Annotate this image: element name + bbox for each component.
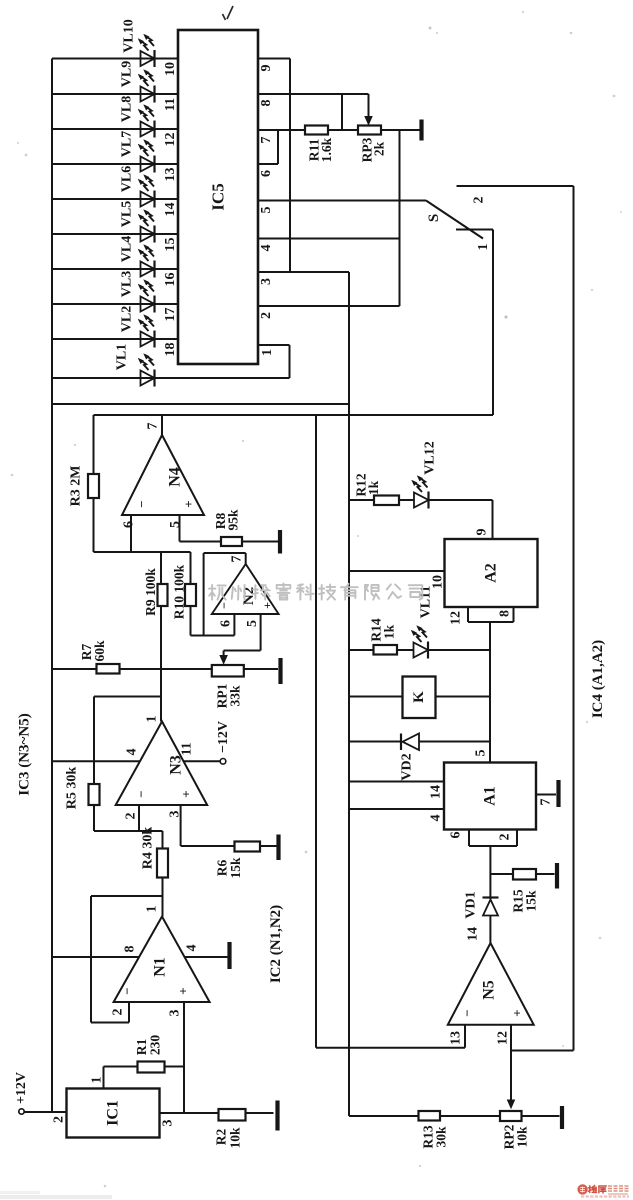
svg-text:10k: 10k xyxy=(515,1126,530,1148)
wire contact 1 down xyxy=(492,230,494,416)
svg-text:IC2 (N1,N2): IC2 (N1,N2) xyxy=(268,905,284,983)
resistor R1 xyxy=(138,1062,165,1073)
svg-text:IC1: IC1 xyxy=(105,1100,122,1126)
svg-text:IC3 (N3~N5): IC3 (N3~N5) xyxy=(17,713,33,795)
label R2 value xyxy=(214,1127,243,1149)
wire IC5 pin 17 row xyxy=(52,303,178,305)
ground R15 ref xyxy=(555,863,559,889)
wire N1 pin 4 ground xyxy=(185,956,228,958)
wire N3 pin 3 xyxy=(181,805,235,846)
watermark company name xyxy=(209,584,422,601)
svg-text:1: 1 xyxy=(145,716,160,723)
svg-text:14: 14 xyxy=(466,927,481,941)
svg-text:17: 17 xyxy=(163,308,178,322)
svg-text:1k: 1k xyxy=(382,624,397,639)
resistor R4 xyxy=(157,849,168,878)
svg-text:7: 7 xyxy=(539,799,554,806)
wire R13 row xyxy=(349,1115,560,1117)
svg-text:2: 2 xyxy=(259,312,274,319)
svg-text:1: 1 xyxy=(260,349,275,356)
svg-text:4: 4 xyxy=(429,815,444,822)
ground IC1 ref xyxy=(275,1101,279,1131)
ground N1 ref xyxy=(227,942,231,969)
svg-text:11: 11 xyxy=(163,98,178,111)
label R15 value xyxy=(511,889,539,912)
wire node R3-R9-R10 xyxy=(94,551,191,553)
wire R8 to ground xyxy=(242,541,278,543)
wire IC5 pin 9 xyxy=(258,58,290,60)
svg-text:VL10: VL10 xyxy=(122,19,137,52)
wire A1 pin 14 row xyxy=(349,781,444,783)
wire A2 out to A1 pin 5 xyxy=(489,622,491,763)
svg-text:12: 12 xyxy=(163,133,178,147)
svg-text:1: 1 xyxy=(145,906,160,913)
svg-text:9: 9 xyxy=(475,529,490,536)
wire N4 output line xyxy=(94,414,494,416)
svg-text:5: 5 xyxy=(259,207,274,214)
svg-text:5: 5 xyxy=(245,620,260,627)
svg-text:+12V: +12V xyxy=(14,1072,29,1104)
svg-text:13: 13 xyxy=(163,168,178,182)
op-amp N1 xyxy=(114,917,210,1003)
wire pins 2-4 to RP3 ground node xyxy=(399,130,401,306)
wire IC5 pin 10 row xyxy=(52,58,178,60)
LED VL11 xyxy=(411,626,428,659)
svg-text:A2: A2 xyxy=(483,563,500,583)
svg-text:12: 12 xyxy=(449,611,464,625)
wire N5 pin 12 xyxy=(511,1025,574,1051)
resistor R2 xyxy=(219,1109,246,1121)
wire R9 chain N4pin6 to N3 out xyxy=(160,552,162,722)
LED VL4 xyxy=(138,245,154,278)
wire A1 pin 4 row xyxy=(349,808,444,810)
wire R4 chain xyxy=(162,831,164,917)
svg-text:VL12: VL12 xyxy=(423,441,438,474)
svg-text:−: − xyxy=(120,987,135,994)
wire IC1 pin 1 to R1 xyxy=(104,1067,138,1089)
wire N3 pin 4 supply xyxy=(52,760,140,762)
svg-text:3: 3 xyxy=(161,1120,176,1127)
svg-text:95k: 95k xyxy=(226,509,241,531)
potentiometer RP1 xyxy=(212,665,244,677)
wire bus pins 9-3 xyxy=(289,59,291,273)
ground N3 ref xyxy=(276,835,280,861)
label RP1 value xyxy=(215,683,243,708)
LED VL1 xyxy=(138,354,154,387)
LED VL6 xyxy=(138,175,154,208)
svg-text:2: 2 xyxy=(472,197,487,204)
svg-text:N3: N3 xyxy=(168,755,185,775)
IC chip IC5 xyxy=(178,30,258,364)
svg-text:230: 230 xyxy=(148,1035,163,1056)
op-amp N4 xyxy=(122,435,204,515)
svg-text:R3 2M: R3 2M xyxy=(69,466,84,507)
LED VL12 xyxy=(412,476,429,509)
wire N4 pin 5 xyxy=(180,515,222,542)
svg-text:12: 12 xyxy=(496,1031,511,1045)
wire R2 to ground xyxy=(246,1112,274,1114)
svg-text:1: 1 xyxy=(476,244,491,251)
wire R11 to RP3 xyxy=(328,129,358,131)
label R7 value xyxy=(79,640,107,662)
wire IC5 pin 12 row xyxy=(52,128,178,130)
LED VL3 xyxy=(138,280,154,313)
svg-text:30k: 30k xyxy=(434,1126,449,1148)
resistor R8 xyxy=(221,537,242,546)
LED VL5 xyxy=(138,210,154,243)
wire IC5 pin 13 row xyxy=(52,163,178,165)
wire IC5 pin 1 stub xyxy=(258,345,290,378)
svg-text:VL2: VL2 xyxy=(120,306,135,332)
svg-text:K: K xyxy=(411,691,427,703)
svg-text:8: 8 xyxy=(259,100,274,107)
label R12 value xyxy=(354,473,382,496)
svg-text:R2: R2 xyxy=(214,1129,229,1146)
svg-text:A1: A1 xyxy=(482,786,499,806)
wire R1 to N1 pin3 node xyxy=(165,1066,185,1068)
wire R3 feedback xyxy=(93,415,95,552)
svg-text:4: 4 xyxy=(259,245,274,252)
wire IC5 pin 16 row xyxy=(52,268,178,270)
ground RP1 ref xyxy=(278,658,282,684)
ground N4 ref xyxy=(278,530,282,554)
wire contact 2 right rail xyxy=(573,186,575,1051)
label RP3 value xyxy=(360,137,387,162)
terminal +12V xyxy=(19,1109,24,1114)
svg-text:2: 2 xyxy=(111,1009,126,1016)
op-amp N2 xyxy=(212,564,279,614)
wire IC5 pin 8 xyxy=(258,93,369,95)
svg-text:S: S xyxy=(426,214,442,222)
potentiometer RP2 xyxy=(500,1111,522,1121)
svg-text:18: 18 xyxy=(163,343,178,357)
LED VL10 xyxy=(138,34,154,67)
svg-text:16: 16 xyxy=(163,273,178,287)
diode VD1 xyxy=(483,898,499,916)
svg-text:VL6: VL6 xyxy=(120,166,135,192)
resistor R3 xyxy=(88,474,99,498)
wire IC5 pin 2 xyxy=(258,305,400,307)
IC chip A2 xyxy=(445,539,538,607)
wire IC5 pin 18 row xyxy=(52,338,178,340)
wire pin8 to R11-RP3 node xyxy=(341,94,343,130)
svg-text:VL8: VL8 xyxy=(120,96,135,122)
svg-text:VL5: VL5 xyxy=(120,201,135,227)
svg-text:−: − xyxy=(217,602,231,609)
svg-text:+: + xyxy=(179,790,194,797)
LED VL7 xyxy=(138,140,154,173)
wire IC5 pin 15 row xyxy=(52,233,178,235)
wire N3 pin 2 xyxy=(138,805,140,831)
resistor R7 xyxy=(97,664,120,674)
switch contact 1 xyxy=(456,229,493,231)
resistor R10 xyxy=(185,584,196,606)
svg-text:3: 3 xyxy=(168,811,183,818)
wire N1 pin 2 xyxy=(128,1002,130,1023)
svg-text:+: + xyxy=(181,500,196,507)
svg-text:3: 3 xyxy=(259,278,274,285)
svg-text:−12V: −12V xyxy=(216,721,231,753)
resistor R13 xyxy=(419,1111,441,1121)
label R11 value xyxy=(307,137,335,162)
svg-text:IC5: IC5 xyxy=(209,183,228,210)
svg-text:14: 14 xyxy=(429,785,444,799)
wire N2 pin 6 xyxy=(233,614,235,636)
wire N2 output loop xyxy=(191,553,246,636)
svg-text:4: 4 xyxy=(125,749,140,756)
svg-text:6: 6 xyxy=(259,170,274,177)
svg-text:−: − xyxy=(460,1009,475,1016)
resistor R9 xyxy=(158,584,168,606)
svg-text:1.6k: 1.6k xyxy=(319,137,334,162)
A2 pins 12-8 stub xyxy=(468,607,514,622)
svg-text:15k: 15k xyxy=(228,857,243,879)
svg-text:11: 11 xyxy=(180,742,195,755)
wire A2 pin 10 row xyxy=(349,570,445,572)
label R13 value xyxy=(421,1125,449,1148)
wire IC1 pin 3 row xyxy=(160,1112,219,1114)
resistor R15 xyxy=(513,869,536,880)
wire +12V feed A-section xyxy=(348,404,350,1116)
svg-text:VD1: VD1 xyxy=(464,891,479,918)
svg-text:VL1: VL1 xyxy=(115,344,130,370)
label R1 value xyxy=(134,1035,163,1056)
switch contact 2 wire xyxy=(457,185,574,187)
wire N2 pin 5 xyxy=(220,614,261,664)
LED VL9 xyxy=(138,70,154,103)
svg-text:−: − xyxy=(134,790,149,797)
svg-text:10k: 10k xyxy=(228,1127,243,1149)
svg-text:7: 7 xyxy=(146,423,161,430)
svg-text:VL9: VL9 xyxy=(120,61,135,87)
svg-text:+: + xyxy=(510,1009,525,1016)
LED VL2 xyxy=(138,315,154,348)
svg-text:VL11: VL11 xyxy=(419,586,434,619)
wire A1 pin 7 to ground xyxy=(536,794,556,796)
svg-text:5: 5 xyxy=(168,521,183,528)
resistor R12 xyxy=(374,496,399,506)
resistor R6 xyxy=(235,842,261,852)
svg-text:VL4: VL4 xyxy=(120,236,135,262)
svg-text:IC4 (A1,A2): IC4 (A1,A2) xyxy=(590,640,606,718)
op-amp N3 xyxy=(116,722,208,806)
svg-text:15: 15 xyxy=(163,238,178,252)
svg-text:2: 2 xyxy=(498,834,513,841)
wire +12V left rail xyxy=(51,59,53,1113)
wire N4 pin 6 xyxy=(130,515,132,552)
wire R6 to ground xyxy=(260,845,277,847)
svg-text:10: 10 xyxy=(163,62,178,76)
wire IC5 pin 3 to +12V bus xyxy=(258,272,349,404)
label R8 value xyxy=(213,509,241,531)
svg-text:R4 30k: R4 30k xyxy=(141,827,156,870)
svg-text:33k: 33k xyxy=(228,685,243,707)
wire VD1 to N5 output xyxy=(489,916,491,944)
ground A1 ref xyxy=(556,780,560,807)
svg-text:7: 7 xyxy=(259,137,274,144)
wire IC5 pin 14 row xyxy=(52,198,178,200)
svg-text:8: 8 xyxy=(123,946,138,953)
svg-text:9: 9 xyxy=(259,65,274,72)
wire A1 out to VD1 xyxy=(489,846,491,899)
wire IC5 pin 6 xyxy=(258,130,278,164)
svg-text:2k: 2k xyxy=(372,141,387,156)
svg-text:6: 6 xyxy=(449,832,464,839)
switch S blade xyxy=(426,201,483,239)
diode VD2 xyxy=(401,734,419,751)
svg-text:6: 6 xyxy=(122,521,137,528)
wire IC5 pin 4 xyxy=(258,238,400,240)
wire IC5 pin 7 xyxy=(258,129,306,131)
handwritten mark xyxy=(223,6,234,20)
wire N3 pin 11 xyxy=(184,760,221,762)
wire R14 row xyxy=(349,649,490,651)
wire N4 output to N5 input xyxy=(315,415,317,1048)
terminal -12V xyxy=(220,759,226,765)
svg-text:13: 13 xyxy=(449,1031,464,1045)
wire RP3 wiper arrow xyxy=(365,94,372,125)
wire N4 output pin 7 xyxy=(161,415,163,435)
svg-text:VL7: VL7 xyxy=(120,131,135,157)
LED VL8 xyxy=(138,105,154,138)
svg-text:R9 100k: R9 100k xyxy=(143,568,158,616)
A1 pins 6-2 stub xyxy=(469,830,517,847)
IC chip A1 xyxy=(444,763,536,830)
svg-text:15k: 15k xyxy=(524,890,539,912)
wire IC5 pin 11 row xyxy=(52,93,178,95)
resistor R14 xyxy=(374,645,398,655)
label R6 value xyxy=(215,857,244,879)
wire K row xyxy=(349,696,490,698)
svg-text:8: 8 xyxy=(498,610,513,617)
svg-text:−: − xyxy=(134,500,149,507)
wire N1 pin 8 supply xyxy=(52,956,139,958)
svg-text:N1: N1 xyxy=(152,957,169,977)
svg-text:VD2: VD2 xyxy=(400,753,415,780)
svg-text:6: 6 xyxy=(219,620,234,627)
ground RP2 ref xyxy=(560,1106,564,1129)
ground IC5 ref xyxy=(419,120,423,141)
svg-text:1: 1 xyxy=(90,1077,105,1084)
watermark logo xyxy=(577,1184,629,1196)
svg-text:2: 2 xyxy=(52,1116,67,1123)
svg-text:1k: 1k xyxy=(366,480,381,495)
svg-text:7: 7 xyxy=(230,556,245,563)
wire N3 feedback R5 xyxy=(94,697,163,832)
resistor R11 xyxy=(305,126,328,135)
wire RP3 to ground xyxy=(381,129,420,131)
svg-text:N5: N5 xyxy=(481,980,498,1000)
wire R7 RP1 row xyxy=(52,668,278,670)
svg-text:4: 4 xyxy=(185,945,200,952)
wire N1 feedback loop xyxy=(91,896,163,1023)
wire VD2 row xyxy=(349,741,490,743)
svg-text:R10 100k: R10 100k xyxy=(172,564,187,619)
op-amp N5 xyxy=(448,943,534,1025)
wire VL1 row xyxy=(52,377,290,379)
svg-text:5: 5 xyxy=(474,750,489,757)
svg-text:2: 2 xyxy=(124,813,139,820)
IC chip IC1 xyxy=(67,1089,160,1138)
svg-text:+: + xyxy=(176,987,191,994)
wire RP2 wiper arrow xyxy=(508,1051,515,1109)
svg-text:N4: N4 xyxy=(167,467,184,487)
svg-text:60k: 60k xyxy=(92,640,107,662)
svg-text:+: + xyxy=(260,602,274,609)
label RP2 value xyxy=(502,1124,530,1149)
potentiometer RP3 xyxy=(358,126,381,135)
wire R12 row xyxy=(349,500,493,539)
svg-text:VL3: VL3 xyxy=(120,271,135,297)
wire IC5 pin 5 xyxy=(258,200,426,202)
relay K xyxy=(403,677,436,719)
wire +12V to IC1 pin 2 xyxy=(24,1111,66,1113)
label R14 value xyxy=(369,618,397,641)
wire R15 row xyxy=(490,873,554,875)
svg-text:R5 30k: R5 30k xyxy=(65,767,80,810)
wire N5 pin 13 xyxy=(316,1025,465,1048)
resistor R10 wire xyxy=(190,552,192,636)
wire +12V bus xyxy=(52,403,349,405)
wire N1 pin 3 xyxy=(183,1002,185,1113)
svg-text:3: 3 xyxy=(168,1010,183,1017)
resistor R5 xyxy=(89,784,100,805)
svg-text:14: 14 xyxy=(163,203,178,217)
